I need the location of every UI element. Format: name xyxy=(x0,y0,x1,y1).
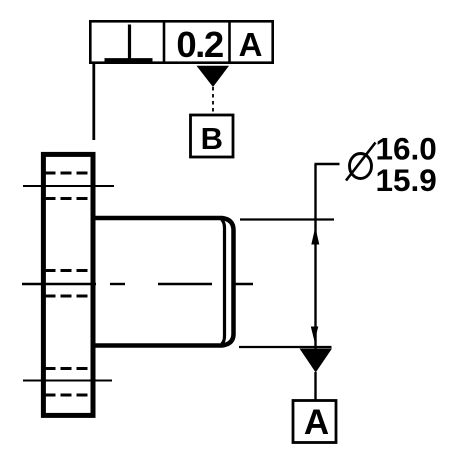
arrowhead down xyxy=(311,327,319,342)
upper bolt hole hidden line bottom xyxy=(45,197,92,200)
datum A triangle xyxy=(300,349,333,373)
boss outline xyxy=(93,218,234,346)
top extension line xyxy=(240,218,334,220)
datum A leader xyxy=(314,372,316,400)
arrowhead up xyxy=(311,227,319,245)
datum B leader xyxy=(212,87,214,114)
main axis center line xyxy=(22,283,253,285)
datum B box xyxy=(191,115,234,157)
datum A box xyxy=(293,401,336,443)
svg-text:16.0: 16.0 xyxy=(376,130,437,166)
central hole hidden line top xyxy=(45,269,92,272)
diameter symbol xyxy=(346,143,376,181)
svg-text:B: B xyxy=(201,121,223,156)
lower bolt hole center line xyxy=(23,380,112,382)
lower bolt hole hidden line bottom xyxy=(45,394,92,397)
boss chamfer line xyxy=(222,220,225,345)
bottom extension line xyxy=(239,346,332,348)
svg-text:15.9: 15.9 xyxy=(376,162,437,198)
upper bolt hole center line xyxy=(23,185,114,187)
perpendicularity symbol xyxy=(105,25,153,60)
datum B triangle xyxy=(197,66,230,87)
upper bolt hole hidden line top xyxy=(45,172,92,175)
dimension leader jog xyxy=(315,163,340,165)
svg-text:A: A xyxy=(239,26,263,63)
svg-text:0.2: 0.2 xyxy=(176,24,222,65)
lower bolt hole hidden line top xyxy=(45,367,92,370)
central hole hidden line bottom xyxy=(45,295,92,298)
feature control frame outer box xyxy=(90,21,272,62)
svg-text:A: A xyxy=(304,403,329,442)
leader from frame to flange face xyxy=(92,63,95,140)
flange outline xyxy=(43,154,93,415)
dimension line vertical xyxy=(314,164,316,350)
